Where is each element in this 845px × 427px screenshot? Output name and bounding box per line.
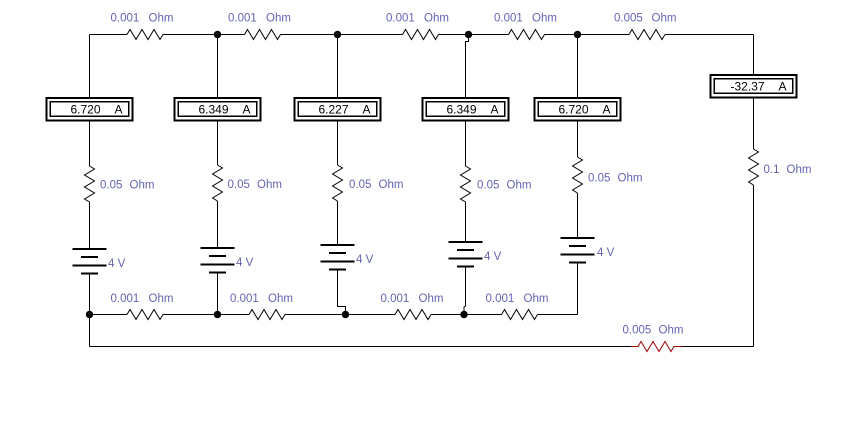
svg-text:Ohm: Ohm (149, 293, 174, 305)
node bottom rail junction 4 (460, 311, 467, 318)
resistor 0.05 Ohm branch 3 (333, 165, 343, 201)
wire return rail left vertical (89, 315, 91, 347)
resistor 0.05 Ohm branch 4 (461, 166, 471, 202)
wire branch 3 resistor to battery (337, 201, 339, 245)
node top rail junction 3 (465, 31, 472, 38)
wire branch 5 battery to bottom rail (577, 263, 579, 315)
svg-text:6.349: 6.349 (446, 103, 476, 117)
wire right branch ammeter to resistor (753, 98, 755, 150)
svg-text:0.001: 0.001 (386, 13, 415, 25)
resistor R10 0.005 Ohm (red, return rail) (631, 342, 683, 352)
resistor 0.1 Ohm right branch (749, 149, 759, 185)
node branch 2 top connection (217, 35, 219, 98)
node bottom rail junction 3 (342, 311, 349, 318)
svg-text:Ohm: Ohm (507, 180, 532, 192)
wire branch 3 battery to bottom rail (338, 270, 346, 315)
wire branch 2 resistor to battery (217, 201, 219, 248)
svg-text:4 V: 4 V (597, 247, 615, 259)
wire branch 4 battery to bottom rail (464, 267, 466, 315)
svg-text:Ohm: Ohm (266, 13, 291, 25)
svg-text:Ohm: Ohm (787, 164, 812, 176)
svg-text:Ohm: Ohm (379, 179, 404, 191)
wire branch 1 battery to bottom rail (89, 274, 91, 315)
node bottom rail junction 1 (86, 311, 93, 318)
node branch 3 top connection (337, 35, 339, 98)
svg-text:Ohm: Ohm (524, 293, 549, 305)
ammeter M4 reading 6.349 A (423, 98, 509, 121)
svg-text:A: A (115, 103, 123, 117)
svg-text:Ohm: Ohm (659, 325, 684, 337)
wire branch 4 resistor to battery (465, 202, 467, 242)
resistor R9 0.001 Ohm (bottom rail 4) (502, 310, 538, 320)
wire return rail (90, 346, 754, 348)
ammeter M5 reading 6.720 A (535, 98, 621, 121)
battery V2 4 V (201, 248, 235, 273)
wire branch 2 ammeter to resistor (217, 122, 219, 166)
battery V3 4 V (321, 245, 355, 270)
resistor R8 0.001 Ohm (bottom rail 3) (395, 310, 431, 320)
resistor R3 0.001 Ohm (top rail 3) (403, 30, 439, 40)
wire branch 4 ammeter to resistor (465, 122, 467, 167)
wire branch 3 ammeter to resistor (337, 122, 339, 166)
svg-text:0.05: 0.05 (588, 173, 610, 185)
svg-text:0.005: 0.005 (614, 13, 643, 25)
wire bottom rail (90, 314, 578, 316)
svg-text:Ohm: Ohm (130, 180, 155, 192)
svg-text:6.349: 6.349 (198, 103, 228, 117)
svg-text:0.005: 0.005 (623, 325, 652, 337)
svg-text:6.227: 6.227 (318, 103, 348, 117)
svg-text:4 V: 4 V (236, 257, 254, 269)
resistor R1 0.001 Ohm (top rail 1) (127, 30, 163, 40)
resistor R6 0.001 Ohm (bottom rail 1) (127, 310, 163, 320)
svg-text:A: A (363, 103, 371, 117)
wire branch 2 battery to bottom rail (217, 273, 219, 315)
battery V1 4 V (73, 249, 107, 274)
svg-text:4 V: 4 V (484, 251, 502, 263)
svg-text:0.001: 0.001 (486, 293, 515, 305)
svg-text:4 V: 4 V (108, 258, 126, 270)
ammeter M2 reading 6.349 A (175, 98, 261, 121)
svg-text:6.720: 6.720 (70, 103, 100, 117)
resistor R5 0.005 Ohm (top rail right) (629, 30, 665, 40)
svg-text:Ohm: Ohm (532, 13, 557, 25)
node top rail junction 2 (334, 31, 341, 38)
svg-text:Ohm: Ohm (257, 179, 282, 191)
ammeter M1 reading 6.720 A (47, 98, 133, 121)
svg-text:A: A (243, 103, 251, 117)
svg-text:0.05: 0.05 (100, 180, 122, 192)
svg-text:Ohm: Ohm (618, 173, 643, 185)
svg-text:A: A (603, 103, 611, 117)
svg-text:Ohm: Ohm (419, 293, 444, 305)
node top rail junction 1 (214, 31, 221, 38)
resistor 0.05 Ohm branch 2 (213, 165, 223, 201)
resistor R4 0.001 Ohm (top rail 4) (509, 30, 545, 40)
svg-text:0.001: 0.001 (111, 293, 140, 305)
svg-text:0.001: 0.001 (230, 293, 259, 305)
wire right branch top (753, 35, 755, 75)
wire branch 5 ammeter to resistor (577, 122, 579, 158)
resistor R2 0.001 Ohm (top rail 2) (245, 30, 281, 40)
svg-text:Ohm: Ohm (652, 13, 677, 25)
node branch 5 top connection (577, 35, 579, 98)
svg-text:0.001: 0.001 (494, 13, 523, 25)
ammeter M6 reading -32.37 A (711, 75, 797, 98)
svg-text:0.001: 0.001 (381, 293, 410, 305)
svg-text:6.720: 6.720 (558, 103, 588, 117)
wire branch 1 ammeter to resistor (89, 122, 91, 167)
resistor 0.05 Ohm branch 5 (573, 157, 583, 193)
wire branch 5 resistor to battery (577, 193, 579, 238)
svg-text:0.05: 0.05 (228, 179, 250, 191)
node bottom rail junction 2 (214, 311, 221, 318)
svg-text:0.001: 0.001 (228, 13, 257, 25)
battery V4 4 V (449, 242, 483, 267)
svg-text:0.05: 0.05 (349, 179, 371, 191)
svg-text:A: A (491, 103, 499, 117)
battery V5 4 V (561, 238, 595, 263)
node top rail junction 4 (574, 31, 581, 38)
svg-text:A: A (779, 80, 787, 94)
svg-text:Ohm: Ohm (149, 13, 174, 25)
svg-text:0.05: 0.05 (477, 180, 499, 192)
node branch 1 top connection (89, 35, 91, 98)
resistor 0.05 Ohm branch 1 (85, 166, 95, 202)
ammeter M3 reading 6.227 A (295, 98, 381, 121)
svg-text:-32.37: -32.37 (730, 80, 764, 94)
svg-text:Ohm: Ohm (268, 293, 293, 305)
node branch 4 top connection (466, 35, 469, 98)
svg-text:4 V: 4 V (356, 254, 374, 266)
svg-text:0.001: 0.001 (111, 13, 140, 25)
svg-text:0.1: 0.1 (764, 164, 780, 176)
wire branch 1 resistor to battery (89, 202, 91, 249)
wire right branch resistor to return rail (753, 185, 755, 347)
resistor R7 0.001 Ohm (bottom rail 2) (249, 310, 285, 320)
wire top rail (90, 34, 754, 36)
svg-text:Ohm: Ohm (424, 13, 449, 25)
